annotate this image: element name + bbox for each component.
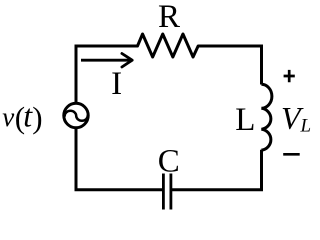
wire: top-left segment with left corner (node between source and R): [76, 46, 138, 104]
wire: bottom-left segment with corner (node between C and source): [76, 128, 163, 190]
current arrow I (shaft): [81, 59, 131, 62]
current arrow I (head): [122, 54, 132, 68]
svg-text:C: C: [158, 143, 180, 179]
source label v(t): [2, 98, 42, 136]
svg-text:L: L: [300, 116, 312, 137]
voltage label V_L: [281, 100, 311, 137]
svg-text:v: v: [2, 102, 14, 132]
polarity label - (V_L negative terminal): [283, 153, 300, 156]
resistor R (zigzag): [138, 34, 199, 57]
capacitor value label C: [158, 143, 180, 179]
svg-text:L: L: [235, 102, 255, 138]
wire: bottom-right segment with corner (node between L and C): [171, 150, 262, 190]
current label I: [111, 66, 122, 102]
inductor value label L: [235, 102, 255, 138]
svg-text:): ): [32, 100, 42, 135]
ac voltage source circle: [64, 103, 88, 127]
svg-text:I: I: [111, 66, 122, 102]
wire: top-right segment with right corner (node between R and L): [198, 46, 261, 85]
capacitor C (two plates): [163, 174, 171, 210]
resistor value label R: [158, 0, 180, 35]
svg-text:R: R: [158, 0, 180, 35]
polarity label + (V_L positive terminal): [284, 70, 295, 82]
ac source sine wave symbol: [65, 111, 88, 121]
inductor L (three arcs): [261, 84, 272, 150]
